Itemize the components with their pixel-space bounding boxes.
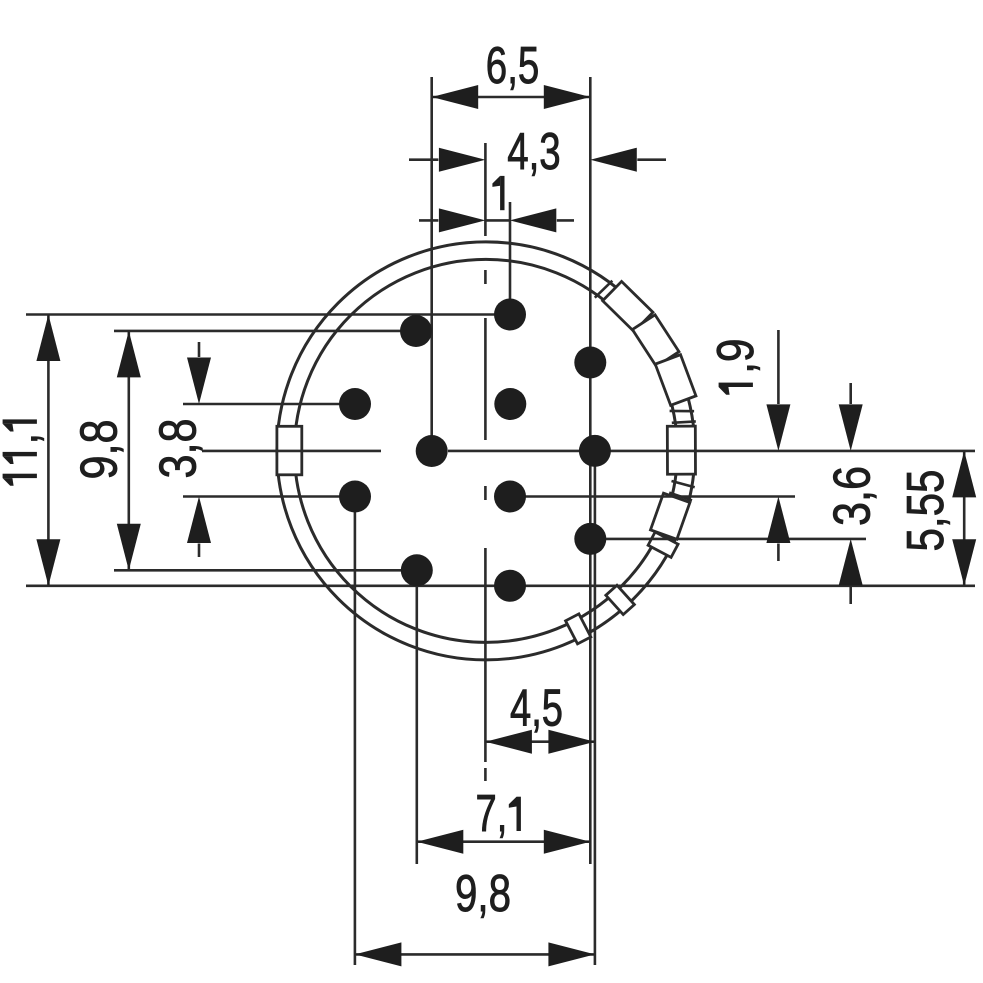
coding notch segment 5 at 19.5 deg: [650, 493, 689, 539]
extension line bottom row through pin 12: [26, 584, 975, 587]
svg-text:3,6: 3,6: [823, 466, 881, 526]
ring division tick 1: [595, 281, 613, 298]
coding notch segment 2 at -33 deg: [632, 315, 679, 367]
extension line column above pin 1: [509, 202, 512, 315]
contact pin 3: [574, 347, 606, 379]
dimension 4,3 arrows: [409, 158, 438, 161]
coding notch segment 4 at -0.2 deg: [667, 426, 695, 474]
dimension 5,55 label: [897, 470, 955, 552]
extension line column below pin 9: [354, 497, 357, 966]
dimension 3,8 arrows: [198, 342, 201, 357]
svg-text:6,5: 6,5: [486, 37, 540, 95]
svg-text:4,5: 4,5: [510, 680, 563, 738]
coding notch segment 3 at -20.5 deg: [655, 355, 696, 406]
extension line from pin 4 row: [183, 403, 355, 406]
svg-text:4,3: 4,3: [507, 123, 561, 181]
svg-text:,9: ,9: [707, 339, 765, 374]
contact pin 6: [416, 435, 448, 467]
contact pin 2: [400, 315, 432, 347]
extension line column below pin 11: [415, 570, 418, 864]
keyway slot at 9 o'clock: [277, 426, 302, 475]
dimension 11,1 label: [0, 419, 49, 485]
contact pin 4: [339, 388, 371, 420]
dimension 9,8 left label: [70, 420, 128, 480]
dimension 5,55 line and arrows: [963, 451, 966, 586]
extension line from pin 1 row to left dims: [26, 313, 510, 316]
svg-text:3,8: 3,8: [149, 419, 207, 479]
dimension 3,6 arrows: [849, 383, 852, 404]
dimension 1 line and arrows: [485, 219, 509, 222]
dimension 6,5 label: [486, 37, 540, 95]
dimension 7,1 label: [476, 785, 521, 843]
vertical centerline (dash-dot): [484, 143, 487, 781]
extension line from pin 10 row right: [590, 538, 866, 541]
horizontal centerline right segment: [448, 450, 975, 453]
dimension 1,9 label: [707, 339, 765, 395]
connector insert inner circle: [294, 259, 677, 642]
svg-text:7,: 7,: [476, 785, 508, 843]
connector insert outer circle: [277, 242, 695, 660]
contact pin 11: [401, 554, 433, 586]
extension line column through center pin 6: [430, 77, 433, 451]
dimension 11,1 line and arrows: [47, 315, 50, 586]
ring division tick 4: [672, 481, 695, 487]
extension line column below pin 7: [594, 451, 597, 965]
coding notch segment 6 at 27.9 deg: [648, 532, 678, 557]
ring division tick 3: [672, 421, 696, 422]
extension line from pin 9 row left: [183, 495, 355, 498]
extension line from pin 2 row: [114, 330, 416, 333]
horizontal centerline left segment: [202, 450, 381, 453]
dimension 4,5 label: [510, 680, 563, 738]
contact pin 1: [494, 299, 526, 331]
dimension 4,3 label: [507, 123, 561, 181]
svg-text:9,8: 9,8: [70, 420, 128, 480]
dimension 1 label: [492, 176, 504, 210]
dimension 3,6 label: [823, 466, 881, 526]
ring division tick 5: [669, 493, 692, 501]
extension line from pin 11 row: [114, 569, 417, 572]
dimension 9,8 bottom label: [455, 865, 511, 923]
dimension 1,9 arrows: [777, 330, 780, 404]
dimension 6,5 line and arrows: [432, 96, 591, 99]
dimension 7,1 line and arrows: [417, 840, 591, 843]
svg-text:5,55: 5,55: [897, 470, 955, 552]
contact pin 10: [574, 523, 606, 555]
svg-text:9,8: 9,8: [455, 865, 511, 923]
contact pin 7: [579, 435, 611, 467]
extension line from pin 8 row right: [510, 495, 795, 498]
contact pin 5: [494, 388, 526, 420]
dimension 3,8 label: [149, 419, 207, 479]
contact pin 12: [494, 570, 526, 602]
dimension 9,8 left line and arrows: [128, 331, 131, 570]
coding notch segment 8 at 62.6 deg: [566, 614, 591, 644]
dimension 4,5 line and arrows: [485, 740, 595, 743]
coding notch segment 1 at -45.5 deg: [603, 281, 653, 331]
dimension 9,8 bottom line and arrows: [355, 953, 595, 956]
svg-text:,: ,: [0, 433, 49, 444]
contact pin 9: [339, 481, 371, 513]
ring division tick 2: [670, 410, 695, 413]
contact pin 8: [494, 481, 526, 513]
extension line column through pins 3 and 10: [589, 77, 592, 864]
coding notch segment 7 at 48.0 deg: [606, 585, 635, 614]
